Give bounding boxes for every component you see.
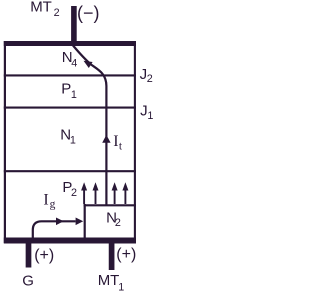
svg-text:G: G bbox=[22, 272, 34, 289]
svg-text:4: 4 bbox=[71, 58, 77, 70]
svg-text:2: 2 bbox=[147, 73, 153, 85]
svg-text:MT: MT bbox=[98, 272, 120, 289]
svg-text:1: 1 bbox=[71, 89, 77, 101]
svg-text:I: I bbox=[43, 191, 48, 208]
svg-text:(+): (+) bbox=[34, 247, 54, 264]
svg-text:P: P bbox=[61, 81, 71, 98]
svg-text:2: 2 bbox=[54, 7, 60, 19]
svg-text:(−): (−) bbox=[77, 3, 100, 23]
svg-text:t: t bbox=[119, 140, 123, 152]
svg-text:g: g bbox=[50, 199, 56, 211]
svg-text:2: 2 bbox=[71, 187, 77, 199]
svg-text:2: 2 bbox=[115, 217, 121, 229]
svg-text:I: I bbox=[113, 133, 118, 150]
svg-text:(+): (+) bbox=[116, 246, 136, 263]
svg-text:MT: MT bbox=[30, 0, 52, 15]
svg-text:1: 1 bbox=[147, 110, 153, 122]
svg-text:1: 1 bbox=[70, 135, 76, 147]
svg-text:1: 1 bbox=[118, 281, 124, 293]
